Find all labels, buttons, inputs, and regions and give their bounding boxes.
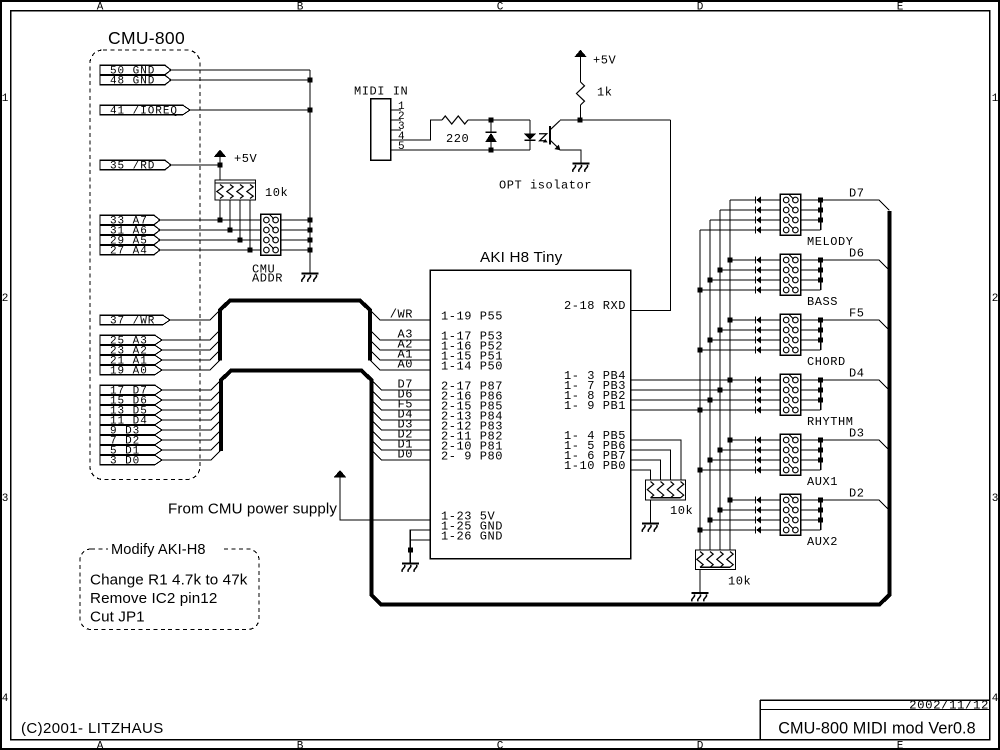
diode AUX1 row 3: [756, 457, 761, 464]
wire MELODY row 3: [710, 219, 756, 221]
ground symbol H8: [402, 564, 419, 572]
diode AUX1 row 2: [756, 447, 761, 454]
wire tap D4: [821, 380, 890, 390]
junction AUX1 out 3: [818, 458, 823, 463]
wire +5V to resistor pack: [219, 165, 221, 180]
wire 1k to collector: [580, 105, 582, 120]
svg-text:BASS: BASS: [807, 295, 838, 309]
wire RHYTHM right pin 3: [801, 399, 821, 401]
svg-text:CHORD: CHORD: [807, 355, 846, 369]
diode AUX1 row 1: [756, 437, 761, 444]
svg-text:D4: D4: [849, 367, 865, 381]
svg-text:1-14 P50: 1-14 P50: [441, 359, 503, 373]
svg-text:F5: F5: [849, 307, 865, 321]
wire CMU ADDR pin to GND row 2: [281, 229, 310, 231]
svg-text:AKI H8 Tiny: AKI H8 Tiny: [480, 249, 563, 266]
svg-text:2: 2: [992, 293, 999, 305]
junction x710 row 280: [708, 278, 713, 283]
junction x700 row 290: [698, 288, 703, 293]
wire AUX1 row 2: [720, 449, 756, 451]
connector RHYTHM: [780, 374, 800, 416]
wire CHORD row 2: [720, 329, 756, 331]
connector AUX2: [780, 494, 800, 536]
wire A0 into bus: [162, 360, 220, 370]
junction A7 pullup: [218, 218, 223, 223]
wire D6 into bus: [162, 390, 221, 400]
MIDI IN connector J1: [371, 99, 391, 161]
svg-text:D2: D2: [849, 487, 865, 501]
junction A6 pullup: [228, 228, 233, 233]
svg-text:1: 1: [2, 93, 9, 105]
IC U1 AKI H8 Tiny: [430, 270, 630, 559]
wire diode to CHORD pin 1: [761, 319, 780, 321]
svg-text:2- 9 P80: 2- 9 P80: [441, 449, 503, 463]
svg-text:10k: 10k: [728, 575, 751, 589]
CMU ADDR label: [252, 262, 283, 285]
junction RHYTHM out 1: [818, 378, 823, 383]
wire D4 into bus: [162, 410, 221, 420]
margin column letters bottom: [97, 740, 904, 750]
junction diode top: [489, 118, 494, 123]
diode RHYTHM row 3: [756, 397, 761, 404]
title block: [760, 700, 990, 740]
+5V arrow CMU supply: [334, 470, 347, 477]
wire tap D3: [821, 440, 890, 450]
junction x720 row 390: [718, 388, 723, 393]
+5V arrow MIDI: [574, 50, 587, 82]
wire MELODY row 4: [700, 229, 756, 231]
wire RHYTHM output bus: [820, 380, 822, 410]
wire diode to RHYTHM pin 1: [761, 379, 780, 381]
wire diode to CHORD pin 3: [761, 339, 780, 341]
svg-text:D: D: [697, 740, 704, 750]
wire diode to MELODY pin 1: [761, 199, 780, 201]
wire tap D7: [821, 200, 890, 210]
junction AUX1 out 2: [818, 448, 823, 453]
pin flag 33 A7: [100, 215, 160, 227]
wire diode to CHORD pin 4: [761, 349, 780, 351]
wire CMU ADDR pin to GND row 3: [281, 239, 310, 241]
wire AUX2 right pin 4: [801, 529, 821, 531]
MIDI pin 2 stub: [391, 111, 405, 123]
svg-text:220: 220: [446, 132, 469, 146]
junction x710 row 460: [708, 458, 713, 463]
svg-text:(C)2001- LITZHAUS: (C)2001- LITZHAUS: [21, 720, 164, 737]
pin flag 27 A4: [100, 245, 160, 257]
wire 50 GND: [171, 69, 310, 71]
wire bus to H8 A2: [370, 340, 430, 350]
white backing for Modify title: [108, 541, 224, 555]
resistor pack RN1 10k: [215, 180, 256, 200]
ground symbol below CMU ADDR: [302, 274, 319, 282]
connector AUX1: [780, 434, 800, 476]
wire CHORD right pin 1: [801, 319, 821, 321]
wire MIDI pin5: [391, 149, 531, 151]
svg-text:From CMU power supply: From CMU power supply: [168, 501, 337, 518]
diode AUX1 row 4: [756, 467, 761, 474]
connector BASS: [780, 254, 800, 295]
junction x710 row 520: [708, 518, 713, 523]
svg-text:MIDI IN: MIDI IN: [354, 85, 408, 99]
wire diode to AUX1 pin 2: [761, 449, 780, 451]
ground symbol emitter: [573, 164, 590, 172]
wire AUX2 right pin 1: [801, 499, 821, 501]
svg-text:37 /WR: 37 /WR: [110, 315, 155, 327]
wire MELODY right pin 4: [801, 229, 821, 231]
wire tap D6: [821, 260, 890, 270]
margin column letters top: [97, 1, 904, 13]
wire PB4 row: [631, 379, 756, 381]
wire RHYTHM right pin 2: [801, 389, 821, 391]
wire AUX2 row 2: [720, 509, 756, 511]
wire RHYTHM right pin 1: [801, 379, 821, 381]
svg-text:A0: A0: [397, 357, 413, 371]
wire BASS right pin 1: [801, 259, 821, 261]
pin flag 35 /RD: [100, 160, 171, 172]
junction AUX2 out 2: [818, 508, 823, 513]
svg-text:D6: D6: [849, 247, 865, 261]
junction x720 row 510: [718, 508, 723, 513]
wire collector: [560, 119, 671, 121]
wire MELODY output bus: [820, 200, 822, 230]
junction x720 row 450: [718, 448, 723, 453]
distribution wire x700: [699, 230, 701, 550]
svg-text:C: C: [497, 1, 504, 13]
wire diode to BASS pin 2: [761, 269, 780, 271]
diode AUX2 row 4: [756, 527, 761, 534]
distribution wire x710: [709, 220, 711, 550]
bus upper (address/WR): [220, 301, 370, 361]
ground symbol RN2: [642, 524, 659, 532]
opto coupling arrows: [539, 134, 548, 143]
wire diode to AUX2 pin 3: [761, 519, 780, 521]
wire AUX1 row 4: [700, 469, 756, 471]
diode AUX2 row 3: [756, 517, 761, 524]
GND vertical wire: [309, 70, 311, 274]
wire AUX2 output bus: [820, 500, 822, 530]
MIDI pin 4 stub: [391, 131, 406, 143]
wire tap D2: [821, 500, 890, 510]
junction AUX2 out 3: [818, 518, 823, 523]
pin flag 9 D3: [100, 425, 162, 437]
resistor R1 220: [442, 116, 468, 124]
pin flag 19 A0: [100, 365, 162, 377]
wire CMU ADDR pin to GND row 4: [281, 249, 310, 251]
junction RHYTHM out 2: [818, 388, 823, 393]
junction A4 pullup: [248, 248, 253, 253]
diode CHORD row 2: [756, 327, 761, 334]
junction x720 row 330: [718, 328, 723, 333]
wire diode to BASS pin 4: [761, 289, 780, 291]
wire diode to AUX1 pin 1: [761, 439, 780, 441]
pin flag 21 A1: [100, 355, 162, 367]
wire bus to H8 A3: [370, 330, 430, 340]
wire CMU ADDR pin to GND row 1: [281, 219, 310, 221]
junction CHORD out 3: [818, 338, 823, 343]
svg-text:3: 3: [992, 493, 999, 505]
svg-text:D: D: [697, 1, 704, 13]
svg-text:E: E: [897, 740, 904, 750]
wire emitter to ground: [560, 150, 582, 164]
junction x730 row 380: [728, 378, 733, 383]
wire diode to MELODY pin 3: [761, 219, 780, 221]
wire bus to H8 /WR: [370, 310, 430, 320]
junction x730 row 320: [728, 318, 733, 323]
svg-text:1-10 PB0: 1-10 PB0: [564, 459, 626, 473]
svg-text:RHYTHM: RHYTHM: [807, 415, 854, 429]
junction /IOREQ: [308, 108, 313, 113]
pin flag 25 A3: [100, 335, 162, 347]
wire CHORD row 3: [710, 339, 756, 341]
wire D5 into bus: [162, 400, 221, 410]
svg-text:35 /RD: 35 /RD: [110, 160, 155, 172]
junction 48 GND: [308, 78, 313, 83]
junction x700 row 410: [698, 408, 703, 413]
diode BASS row 4: [756, 287, 761, 294]
svg-text:10k: 10k: [670, 504, 693, 518]
wire MELODY right pin 1: [801, 199, 821, 201]
svg-text:2: 2: [2, 293, 9, 305]
wire AUX1 row 1: [730, 439, 756, 441]
connector CHORD: [780, 314, 800, 356]
wire diode to MELODY pin 2: [761, 209, 780, 211]
MIDI pin 5 stub: [391, 141, 405, 153]
wire D7 into bus: [162, 380, 221, 390]
transistor Q1 (opto output): [550, 121, 560, 151]
wire A1 into bus: [162, 350, 220, 360]
wire diode to AUX2 pin 4: [761, 529, 780, 531]
wire 41 /IOREQ: [190, 109, 310, 111]
junction CHORD out 2: [818, 328, 823, 333]
junction x700 row 350: [698, 348, 703, 353]
connector MELODY: [780, 194, 800, 235]
svg-text:C: C: [497, 740, 504, 750]
svg-text:B: B: [297, 740, 304, 750]
wire AUX2 row 3: [710, 519, 756, 521]
wire A2 into bus: [162, 340, 220, 350]
pin flag 7 D2: [100, 435, 162, 447]
svg-text:A: A: [97, 1, 104, 13]
wire PB6 to pull resistor: [631, 450, 671, 480]
svg-text:10k: 10k: [265, 186, 288, 200]
svg-text:B: B: [297, 1, 304, 13]
wire bus to H8 A1: [370, 350, 430, 360]
svg-text:ADDR: ADDR: [252, 271, 283, 285]
resistor pack RN2 10k: [646, 480, 686, 500]
wire diode to CHORD pin 2: [761, 329, 780, 331]
svg-text:+5V: +5V: [234, 152, 258, 166]
wire AUX2 row 1: [730, 499, 756, 501]
diode CHORD row 1: [756, 317, 761, 324]
wire MELODY row 1: [730, 199, 756, 201]
wire diode to BASS pin 1: [761, 259, 780, 261]
distribution wire x720: [719, 210, 721, 550]
wire BASS right pin 4: [801, 289, 821, 291]
wire BASS row 3: [710, 279, 756, 281]
junction x730 row 440: [728, 438, 733, 443]
diode CHORD row 4: [756, 347, 761, 354]
diode MELODY row 4: [756, 227, 761, 234]
junction AUX2 out 1: [818, 498, 823, 503]
wire /WR into bus: [170, 310, 220, 320]
svg-text:D3: D3: [849, 427, 865, 441]
wire A4: [160, 249, 261, 251]
pin flag 5 D1: [100, 445, 162, 457]
wire PB7 to pull resistor: [631, 460, 661, 480]
wire D3 into bus: [162, 420, 221, 430]
svg-text:CMU-800 MIDI mod Ver0.8: CMU-800 MIDI mod Ver0.8: [778, 720, 976, 738]
diode MELODY row 3: [756, 217, 761, 224]
wire diode to BASS pin 3: [761, 279, 780, 281]
svg-text:3 D0: 3 D0: [110, 455, 140, 467]
pin flag 50 GND: [100, 65, 171, 77]
wire BASS right pin 2: [801, 269, 821, 271]
wire A3 into bus: [162, 330, 220, 340]
CMU-800 dashed outline box: [90, 50, 200, 480]
pin flag 41 /IOREQ: [100, 105, 190, 117]
junction H8 GND: [408, 548, 413, 553]
wire resistor to LED: [468, 119, 530, 121]
svg-text:E: E: [897, 1, 904, 13]
svg-text:CMU-800: CMU-800: [108, 28, 185, 48]
junction A5 pullup: [238, 238, 243, 243]
wire CHORD right pin 4: [801, 349, 821, 351]
wire diode to AUX2 pin 2: [761, 509, 780, 511]
junction BASS out 2: [818, 268, 823, 273]
wire bus to H8 D7: [372, 380, 431, 390]
wire diode to AUX1 pin 3: [761, 459, 780, 461]
diode BASS row 3: [756, 277, 761, 284]
wire PB2 row: [631, 399, 756, 401]
Modify AKI-H8 dashed box: [80, 549, 259, 630]
ground symbol RN3: [692, 593, 709, 601]
wire AUX2 right pin 3: [801, 519, 821, 521]
wire tap F5: [821, 320, 890, 330]
svg-text:+5V: +5V: [593, 54, 617, 68]
wire A5: [160, 239, 261, 241]
wire RN3 to ground: [699, 570, 701, 593]
junction x700 row 470: [698, 468, 703, 473]
opto LED (vertical, pointing down): [524, 120, 537, 150]
wire bus to H8 A0: [370, 360, 430, 370]
pin flag 29 A5: [100, 235, 160, 247]
wire diode to RHYTHM pin 4: [761, 409, 780, 411]
wire D2 into bus: [162, 430, 221, 440]
wire AUX1 right pin 1: [801, 439, 821, 441]
wire bus to H8 D4: [372, 410, 431, 420]
diode MELODY row 1: [756, 197, 761, 204]
wires H8 GND pins: [410, 530, 430, 564]
svg-text:2002/11/12: 2002/11/12: [909, 699, 989, 713]
svg-text:4: 4: [992, 693, 999, 705]
junction GND row 2: [308, 228, 313, 233]
wire A7: [160, 219, 261, 221]
junction MELODY out 2: [818, 208, 823, 213]
wire CHORD right pin 2: [801, 329, 821, 331]
resistor pack RN3 10k: [696, 550, 736, 570]
wire AUX1 right pin 2: [801, 449, 821, 451]
wire bus to H8 F5: [372, 400, 431, 410]
junction diode bottom: [489, 148, 494, 153]
diode BASS row 2: [756, 267, 761, 274]
wire bus to H8 D6: [372, 390, 431, 400]
junction x710 row 400: [708, 398, 713, 403]
svg-text:4: 4: [2, 693, 9, 705]
svg-text:41 /IOREQ: 41 /IOREQ: [110, 105, 178, 117]
wire diode to RHYTHM pin 3: [761, 399, 780, 401]
wire CHORD output bus: [820, 320, 822, 350]
wire AUX1 right pin 3: [801, 459, 821, 461]
distribution wire x730: [729, 200, 731, 550]
junction x720 row 270: [718, 268, 723, 273]
wire D0 into bus: [162, 450, 221, 460]
pin flag 15 D6: [100, 395, 162, 407]
svg-text:D0: D0: [397, 447, 413, 461]
svg-text:3: 3: [2, 493, 9, 505]
wire bus to H8 D2: [372, 430, 431, 440]
junction x710 row 340: [708, 338, 713, 343]
wire PB0 to pull resistor: [631, 470, 651, 480]
wire PB3 row: [631, 389, 756, 391]
svg-text:Change R1 4.7k to 47k: Change R1 4.7k to 47k: [90, 572, 248, 589]
wire bus to H8 D0: [372, 450, 431, 460]
resistor R2 1k: [577, 82, 585, 105]
wire AUX1 output bus: [820, 440, 822, 470]
diode RHYTHM row 1: [756, 377, 761, 384]
wire 48 GND: [171, 79, 310, 81]
svg-text:5: 5: [398, 141, 405, 153]
wire BASS row 1: [730, 259, 756, 261]
junction x730 row 500: [728, 498, 733, 503]
wire bus to H8 D3: [372, 420, 431, 430]
wire diode to MELODY pin 4: [761, 229, 780, 231]
junction x700 row 530: [698, 528, 703, 533]
svg-text:AUX2: AUX2: [807, 535, 838, 549]
diode RHYTHM row 2: [756, 387, 761, 394]
svg-text:MELODY: MELODY: [807, 235, 854, 249]
junction /RD +5V: [218, 163, 223, 168]
wire CHORD row 1: [730, 319, 756, 321]
wire BASS row 2: [720, 269, 756, 271]
wire bus to H8 D1: [372, 440, 431, 450]
svg-text:Remove IC2 pin12: Remove IC2 pin12: [90, 590, 217, 607]
MIDI pin 1 stub: [391, 101, 406, 113]
wire diode to RHYTHM pin 2: [761, 389, 780, 391]
wire diode to AUX2 pin 1: [761, 499, 780, 501]
wire 35 /RD: [171, 164, 220, 166]
svg-text:27 A4: 27 A4: [110, 245, 148, 257]
junction CHORD out 1: [818, 318, 823, 323]
wire AUX1 row 3: [710, 459, 756, 461]
wire PB5 to pull resistor: [631, 440, 681, 480]
junction BASS out 3: [818, 278, 823, 283]
wire RHYTHM right pin 4: [801, 409, 821, 411]
pin flag 13 D5: [100, 405, 162, 417]
wire A6: [160, 229, 261, 231]
diode AUX2 row 1: [756, 497, 761, 504]
svg-text:D7: D7: [849, 187, 865, 201]
diode RHYTHM row 4: [756, 407, 761, 414]
pin flag 37 /WR: [100, 315, 170, 327]
svg-text:A: A: [97, 740, 104, 750]
svg-text:/WR: /WR: [390, 307, 413, 321]
pin flag 31 A6: [100, 225, 160, 237]
pin flag 48 GND: [100, 75, 171, 87]
diode CHORD row 3: [756, 337, 761, 344]
junction BASS out 1: [818, 258, 823, 263]
wire From CMU power supply 5V: [340, 477, 430, 520]
wire MELODY row 2: [720, 209, 756, 211]
